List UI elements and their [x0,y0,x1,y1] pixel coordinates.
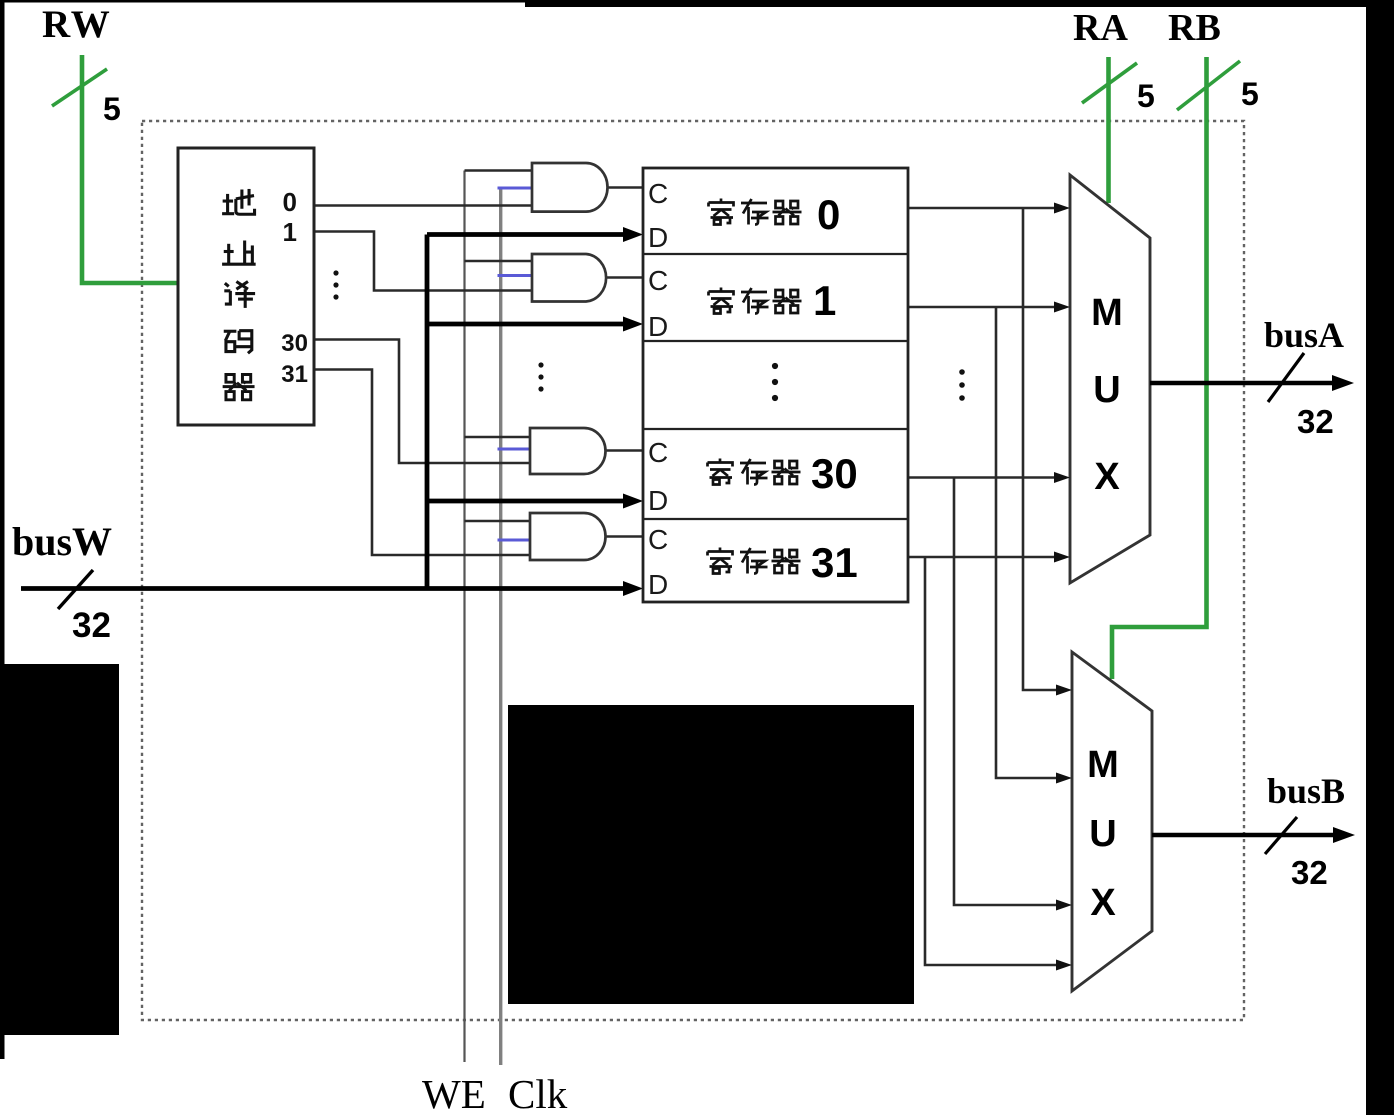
svg-text:WE: WE [422,1071,486,1115]
svg-text:C: C [648,265,668,296]
svg-text:C: C [648,178,668,209]
svg-text:D: D [648,311,668,342]
svg-text:D: D [648,485,668,516]
svg-text:busW: busW [12,519,112,564]
svg-text:C: C [648,524,668,555]
svg-text:RA: RA [1073,7,1128,49]
svg-text:5: 5 [1241,76,1259,112]
svg-text:31: 31 [281,361,308,388]
svg-text:X: X [1090,882,1116,924]
svg-text:30: 30 [281,330,308,357]
svg-text:M: M [1087,744,1119,786]
svg-text:RW: RW [42,3,112,46]
svg-text:Clk: Clk [508,1071,568,1115]
svg-text:1: 1 [283,217,297,247]
svg-text:D: D [648,569,668,600]
svg-text:RB: RB [1168,7,1221,49]
svg-text:32: 32 [1297,403,1334,440]
svg-text:M: M [1091,292,1123,334]
svg-text:C: C [648,437,668,468]
svg-text:32: 32 [72,606,111,645]
svg-text:0: 0 [283,187,297,217]
svg-text:31: 31 [811,539,858,586]
svg-text:busB: busB [1267,771,1345,811]
svg-text:busA: busA [1264,315,1344,355]
svg-text:0: 0 [817,191,840,238]
svg-text:X: X [1094,456,1120,498]
svg-text:5: 5 [1137,78,1155,114]
svg-text:D: D [648,222,668,253]
svg-text:30: 30 [811,450,858,497]
svg-text:U: U [1093,369,1120,411]
svg-text:U: U [1089,813,1116,855]
svg-text:5: 5 [103,91,121,127]
svg-text:1: 1 [813,277,836,324]
svg-text:32: 32 [1291,854,1328,891]
